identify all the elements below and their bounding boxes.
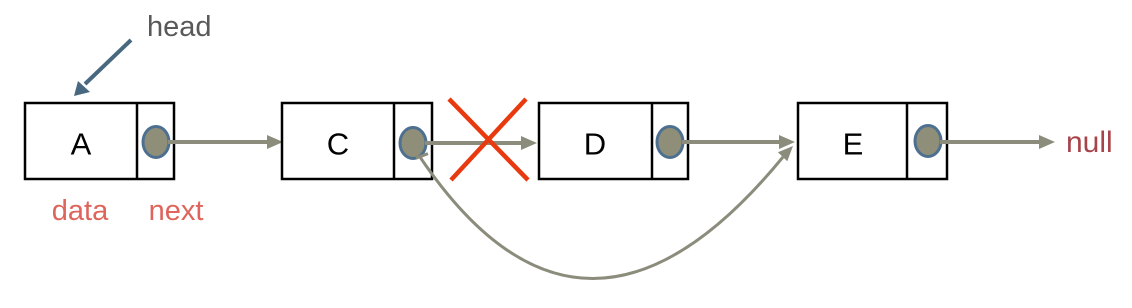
svg-text:next: next	[149, 195, 204, 227]
svg-text:D: D	[584, 127, 606, 162]
node A pointer dot	[143, 127, 169, 158]
node C box	[282, 103, 432, 179]
svg-text:E: E	[843, 127, 864, 162]
arrow C to D (being deleted)	[425, 136, 537, 150]
arrow A to C	[168, 135, 283, 149]
node E box	[798, 103, 947, 179]
bypass curve C to E	[416, 146, 793, 279]
svg-text:C: C	[327, 127, 349, 162]
svg-text:null: null	[1066, 126, 1113, 159]
svg-text:data: data	[52, 195, 109, 227]
node D pointer dot	[657, 127, 683, 158]
node D box	[539, 103, 688, 179]
red X delete mark	[449, 99, 528, 180]
arrow E to null	[940, 135, 1055, 149]
svg-text:head: head	[147, 11, 212, 43]
arrow D to E	[682, 135, 795, 149]
node A box	[25, 103, 174, 179]
node C pointer dot	[400, 128, 426, 159]
head pointer arrow	[74, 40, 131, 96]
node E pointer dot	[915, 126, 941, 157]
svg-text:A: A	[71, 127, 92, 162]
